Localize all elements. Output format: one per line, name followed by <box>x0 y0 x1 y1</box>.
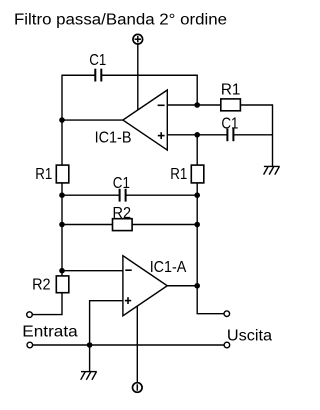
wire: top feedback right segment from C1 to minus node <box>102 75 198 105</box>
node: ground junction <box>87 342 93 348</box>
svg-text:IC1-B: IC1-B <box>95 130 132 147</box>
wire: common ground bus <box>33 344 225 346</box>
wire: R2 (middle) <box>62 224 197 226</box>
wire: top feedback left segment to C1 <box>62 74 95 76</box>
capacitor C1 (middle) <box>120 189 126 202</box>
terminal Uscita ground <box>224 342 230 348</box>
node: right rail / C1 mid <box>194 192 200 198</box>
node: IC1-A output <box>194 283 200 289</box>
wire: left rail from top corner down to Entrata bend <box>32 75 62 315</box>
IC1-A plus sign <box>125 297 131 304</box>
wire: IC1-A non-inverting input down to ground junction <box>90 301 123 345</box>
node: right rail / R2 mid <box>194 222 200 228</box>
svg-text:C1: C1 <box>221 116 238 133</box>
svg-text:R1: R1 <box>221 82 241 99</box>
resistor R2 (middle, horizontal) <box>113 219 133 231</box>
IC1-A minus sign <box>125 269 131 271</box>
svg-text:Uscita: Uscita <box>227 328 272 345</box>
resistor R1 (left, vertical) <box>56 165 69 183</box>
svg-text:C1: C1 <box>113 175 130 192</box>
wire: mid-right rail from plus node down to Uscita terminal <box>197 135 224 314</box>
wire: C1 (middle) right segment <box>126 194 197 196</box>
resistor R2 (bottom left, vertical) <box>56 276 69 293</box>
node: IC1-B minus <box>194 102 200 108</box>
wire: ground stem (bottom left) <box>89 345 91 371</box>
resistor R1 (right, vertical) <box>191 165 204 183</box>
wire: IC1-A output to right rail <box>167 285 197 287</box>
op-amp IC1-A (pointing right) <box>123 256 167 316</box>
svg-text:IC1-A: IC1-A <box>150 259 187 276</box>
capacitor C1 (right) <box>227 128 233 141</box>
resistor R1 (top right, horizontal) <box>221 99 241 111</box>
node: left rail / IC1-A minus <box>59 268 65 274</box>
svg-text:Filtro passa/Banda 2° ordine: Filtro passa/Banda 2° ordine <box>14 11 227 28</box>
node: left rail / R2 mid <box>59 222 65 228</box>
IC1-B plus sign <box>158 132 165 139</box>
capacitor C1 (top feedback) <box>95 69 101 82</box>
svg-text:C1: C1 <box>89 52 106 69</box>
wire: IC1-A inverting input from left rail <box>62 270 123 272</box>
IC1-B minus sign <box>158 104 165 106</box>
ground (top right) <box>264 166 280 174</box>
terminal Entrata signal <box>27 312 33 318</box>
supply -V symbol (bottom) <box>133 306 143 392</box>
wire: R1 to right rail and down to ground <box>240 105 272 166</box>
node: left rail / C1 mid <box>59 192 65 198</box>
node: IC1-B plus <box>194 132 200 138</box>
wire: IC1-B inverting input to R1 <box>167 104 221 106</box>
svg-text:R2: R2 <box>32 277 51 294</box>
wire: C1 right plate to right rail <box>234 134 273 136</box>
svg-text:Entrata: Entrata <box>22 324 78 341</box>
supply +V symbol (top) <box>133 34 143 110</box>
wire: IC1-B output to left rail <box>62 119 123 121</box>
svg-text:R2: R2 <box>113 205 132 222</box>
op-amp IC1-B (pointing left) <box>123 90 167 150</box>
node: IC1-B output / left rail <box>59 117 65 123</box>
wire: C1 (middle) left segment <box>62 194 119 196</box>
terminal Uscita signal <box>224 311 230 317</box>
terminal Entrata ground <box>27 342 33 348</box>
wire: IC1-B non-inverting input to C1 (right) <box>167 134 227 136</box>
ground (bottom left) <box>81 372 97 380</box>
svg-text:R1: R1 <box>35 166 52 183</box>
svg-text:R1: R1 <box>170 166 187 183</box>
